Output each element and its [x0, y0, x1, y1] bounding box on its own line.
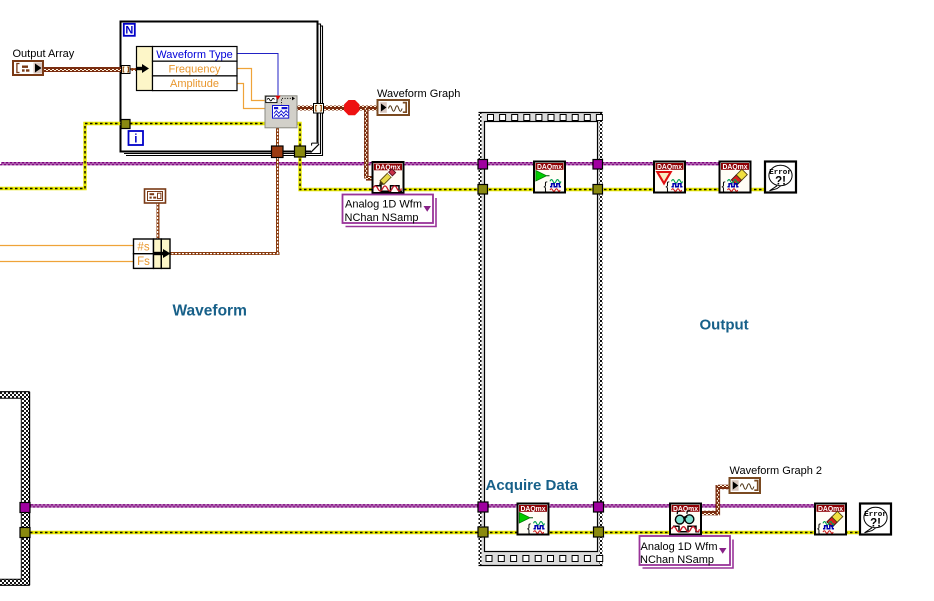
wire sampling info (brown dotted, terminal to node) [157, 203, 160, 240]
wire DAQmx task (purple, top row) [0, 163, 730, 165]
constant sampling info terminal [145, 189, 166, 203]
VI Basic Function Generator [265, 96, 297, 128]
svg-text:Frequency: Frequency [169, 64, 221, 76]
svg-text:Output: Output [700, 317, 749, 334]
svg-text:NChan NSamp: NChan NSamp [345, 212, 419, 224]
loop count N glyph [124, 24, 135, 37]
VI DAQmx Clear Task (top) [720, 162, 751, 194]
tunnel seq-right error (olive) [593, 185, 603, 195]
svg-text:Fs: Fs [137, 256, 150, 268]
tunnel loop-left array [] [122, 66, 131, 74]
tunnel seq-left task (purple) [478, 160, 488, 170]
VI DAQmx Read [670, 504, 701, 535]
svg-text:{: { [817, 521, 821, 535]
tunnel seq-left-bottom error (olive) [478, 527, 488, 537]
tunnel seq-left error (olive) [478, 185, 488, 195]
svg-text:Amplitude: Amplitude [170, 78, 219, 90]
wire waveform (brown hatched, VI out to graph terminal) [297, 106, 378, 111]
VI DAQmx Start Task (bottom) [518, 504, 549, 536]
wire array into loop (brown dotted stub at tunnel) [130, 68, 137, 71]
wire waveform (brown hatched, DAQmx Read to Waveform Graph 2) [701, 485, 730, 516]
svg-text:NChan NSamp: NChan NSamp [640, 554, 714, 566]
indicator terminal Waveform Graph 2 [730, 478, 761, 493]
wire error cluster (top row) [0, 124, 770, 190]
tunnel seq-right-bottom task (purple) [594, 502, 604, 512]
wire waveform branch down to DAQmx Write [364, 107, 373, 181]
VI DAQmx Start Task (top) [534, 162, 565, 194]
wire sampling info (brown dotted, node output up into loop) [170, 128, 280, 256]
svg-text:?!: ?! [775, 176, 786, 188]
svg-text:Analog 1D Wfm: Analog 1D Wfm [640, 541, 717, 553]
wire DBL Frequency (orange) [237, 69, 266, 101]
VI DAQmx Stop Task [654, 162, 685, 194]
unbundle by name node [137, 47, 238, 91]
VI DAQmx Write [373, 162, 404, 193]
tunnel loop-left error (olive) [121, 120, 130, 129]
wire enum Waveform Type (blue) [237, 54, 278, 96]
wire DAQmx task (purple, bottom row) [25, 505, 825, 507]
tunnel loop-bottom error (olive) [295, 146, 306, 157]
svg-text:N: N [125, 25, 133, 37]
VI DAQmx Clear Task (bottom) [815, 504, 846, 536]
svg-text:Acquire Data: Acquire Data [486, 477, 579, 494]
for loop main border [121, 22, 320, 153]
VI Simple Error Handler (bottom) [860, 504, 891, 535]
tunnel seq-left-bottom task (purple) [478, 502, 488, 512]
svg-text:Output Array: Output Array [13, 48, 75, 60]
svg-text:{: { [544, 179, 548, 193]
svg-text:DAQmx: DAQmx [376, 163, 402, 172]
svg-text:#s: #s [137, 242, 149, 254]
tunnel seq-right-bottom error (olive) [594, 527, 604, 537]
tunnel left-structure error (olive) [20, 528, 30, 538]
svg-text:Waveform Graph 2: Waveform Graph 2 [730, 465, 823, 477]
for loop N (stacked sheets) [124, 24, 323, 156]
indicator terminal Waveform Graph [378, 100, 410, 115]
svg-text:i: i [134, 134, 137, 146]
coercion dot (red octagon) [344, 100, 359, 115]
svg-text:Waveform Graph: Waveform Graph [377, 88, 460, 100]
wire numeric #s (orange, from left edge) [0, 245, 134, 247]
VI Simple Error Handler (top) [765, 162, 796, 193]
svg-text:DAQmx: DAQmx [673, 504, 699, 513]
svg-text:DAQmx: DAQmx [537, 162, 563, 171]
wire error cluster (bottom row) [25, 531, 866, 534]
wire waveform array (brown hatched, Output Array to loop) [44, 67, 122, 72]
control terminal Output Array [13, 61, 43, 75]
svg-text:DAQmx: DAQmx [818, 504, 844, 513]
tunnel left-structure task (purple) [20, 503, 30, 513]
svg-text:{: { [666, 179, 670, 193]
tunnel loop-right indexing [] [314, 104, 324, 114]
svg-text:Waveform Type: Waveform Type [156, 49, 232, 61]
sequence structure Acquire Data (filmstrip border) [479, 112, 603, 566]
svg-text:Waveform: Waveform [173, 303, 247, 320]
sequence structure left (edge of offscreen frame) [0, 392, 30, 586]
selector Analog 1D Wfm NChan NSamp (top) [343, 195, 437, 227]
svg-text:DAQmx: DAQmx [521, 504, 547, 513]
node build waveform components (#s / Fs) [134, 239, 171, 268]
svg-text:DAQmx: DAQmx [657, 162, 683, 171]
loop iterator i glyph [129, 131, 144, 146]
tunnel seq-right task (purple) [593, 160, 603, 170]
wire numeric Fs (orange, from left edge) [0, 261, 134, 263]
svg-text:?!: ?! [870, 518, 881, 530]
svg-text:{: { [527, 521, 531, 535]
svg-text:Analog 1D Wfm: Analog 1D Wfm [345, 199, 422, 211]
selector Analog 1D Wfm NChan NSamp (bottom) [640, 536, 734, 568]
svg-text:DAQmx: DAQmx [723, 162, 749, 171]
svg-text:{: { [722, 179, 726, 193]
tunnel loop-bottom sampling info (brown) [272, 146, 284, 158]
wire DBL Amplitude (orange) [237, 84, 266, 109]
